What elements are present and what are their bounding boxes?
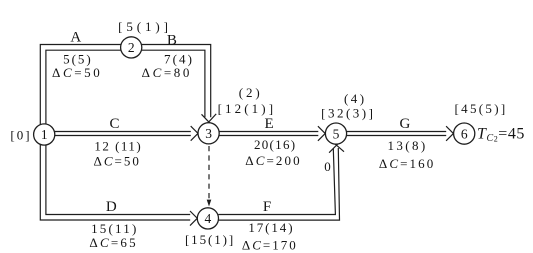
svg-text:F: F bbox=[263, 199, 271, 215]
svg-text:15(11): 15(11) bbox=[91, 221, 138, 236]
svg-text:ΔC=200: ΔC=200 bbox=[245, 153, 301, 168]
wire arc F (4-5) outer line bbox=[218, 148, 339, 220]
svg-text:ΔC=50: ΔC=50 bbox=[52, 65, 102, 80]
svg-text:0: 0 bbox=[324, 159, 331, 174]
svg-text:[15(1)]: [15(1)] bbox=[185, 232, 235, 247]
dummy arc 3 to 4 dashed wire bbox=[208, 146, 210, 201]
svg-text:[5(1)]: [5(1)] bbox=[118, 19, 172, 34]
svg-text:20(16): 20(16) bbox=[254, 137, 296, 152]
arrowhead B into node 3 bbox=[202, 114, 217, 124]
wire arc D (1-4) outer line bbox=[40, 144, 190, 221]
arrowhead D into node 4 bbox=[190, 211, 200, 226]
svg-text:G: G bbox=[399, 116, 410, 132]
wire arc G (5-6) double line bbox=[347, 132, 447, 136]
svg-text:13(8): 13(8) bbox=[388, 138, 428, 153]
svg-text:4: 4 bbox=[205, 211, 212, 226]
svg-text:[12(1)]: [12(1)] bbox=[218, 101, 277, 116]
svg-text:ΔC=160: ΔC=160 bbox=[379, 156, 435, 171]
arrowhead E into node 5 bbox=[318, 126, 328, 141]
svg-text:[0]: [0] bbox=[10, 128, 31, 143]
node 4 bbox=[197, 208, 218, 229]
arrowhead G into node 6 bbox=[446, 126, 456, 141]
svg-text:[45(5)]: [45(5)] bbox=[455, 101, 508, 116]
svg-text:(2): (2) bbox=[239, 85, 263, 100]
svg-text:2: 2 bbox=[128, 40, 135, 55]
svg-text:[32(3)]: [32(3)] bbox=[321, 105, 375, 120]
svg-text:D: D bbox=[106, 199, 117, 215]
svg-text:5: 5 bbox=[333, 126, 340, 141]
svg-text:ΔC=80: ΔC=80 bbox=[142, 65, 192, 80]
svg-text:TC2=45: TC2=45 bbox=[477, 125, 525, 144]
svg-text:A: A bbox=[70, 30, 81, 46]
svg-text:1: 1 bbox=[41, 127, 48, 142]
wire arc B (2-3) inner line bbox=[142, 50, 205, 117]
wire arc E (3-5) double line bbox=[219, 132, 318, 136]
svg-text:6: 6 bbox=[461, 126, 468, 141]
wire arc A (1-2) inner line bbox=[46, 50, 121, 125]
svg-text:C: C bbox=[109, 116, 119, 132]
node 3 bbox=[198, 123, 219, 144]
wire arc B (2-3) outer line bbox=[141, 45, 211, 118]
node 6 bbox=[454, 123, 475, 144]
svg-text:3: 3 bbox=[205, 126, 212, 141]
arrowhead F into node 5 bbox=[329, 143, 344, 152]
svg-text:E: E bbox=[265, 116, 274, 132]
node 1 bbox=[34, 124, 55, 145]
node 2 bbox=[121, 37, 142, 58]
svg-text:ΔC=170: ΔC=170 bbox=[242, 238, 298, 253]
wire arc F (4-5) inner line bbox=[218, 149, 335, 215]
svg-text:(4): (4) bbox=[344, 91, 367, 106]
svg-text:B: B bbox=[167, 32, 177, 48]
svg-text:ΔC=65: ΔC=65 bbox=[89, 235, 137, 250]
wire arc A (1-2) outer line bbox=[40, 45, 121, 126]
svg-text:17(14): 17(14) bbox=[248, 220, 294, 235]
wire arc C (1-3) double line bbox=[55, 132, 191, 136]
svg-text:12 (11): 12 (11) bbox=[94, 139, 142, 154]
arrowhead C into node 3 bbox=[191, 126, 201, 141]
node 5 bbox=[325, 123, 346, 144]
dummy arrowhead into node 4 bbox=[207, 200, 212, 207]
svg-text:ΔC=50: ΔC=50 bbox=[94, 153, 141, 168]
wire arc D (1-4) inner line bbox=[46, 144, 190, 215]
